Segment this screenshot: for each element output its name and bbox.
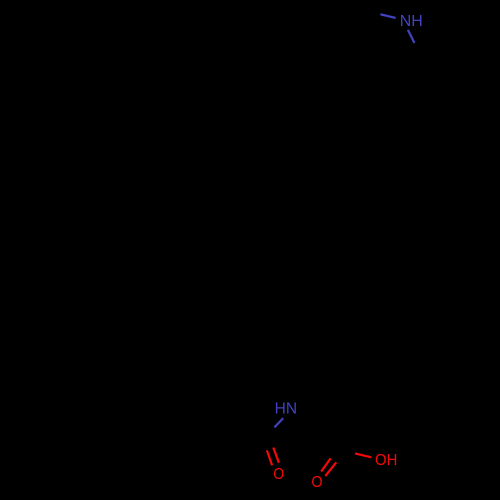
svg-text:NH: NH <box>400 13 423 30</box>
atom label NH (top amine nitrogen) <box>400 13 423 30</box>
bond C-OH (O-colored half) <box>355 453 371 457</box>
atom label HN (amide nitrogen) <box>275 401 297 418</box>
atom label O (acetyl carbonyl oxygen) <box>273 465 284 483</box>
double bond C=O acetyl, O-colored half, left line <box>267 450 272 465</box>
double bond C=O carboxyl, O-colored half, left line <box>321 458 331 471</box>
double bond C=O carboxyl, O-colored half, right line <box>325 462 336 476</box>
svg-text:O: O <box>311 474 322 492</box>
svg-text:O: O <box>273 465 284 483</box>
svg-text:HN: HN <box>275 401 297 418</box>
svg-text:OH: OH <box>375 451 397 469</box>
double bond C=O acetyl, O-colored half, right line <box>273 448 279 463</box>
bond N-CH2 (N-colored half), below NH <box>408 30 415 43</box>
bond CH3-N (N-colored half), top amine <box>380 14 395 18</box>
atom label OH (carboxylic acid hydroxyl) <box>375 451 397 469</box>
bond N-C(=O) (N-colored half), amide <box>274 418 283 427</box>
atom label O (carboxyl carbonyl oxygen) <box>311 474 322 492</box>
